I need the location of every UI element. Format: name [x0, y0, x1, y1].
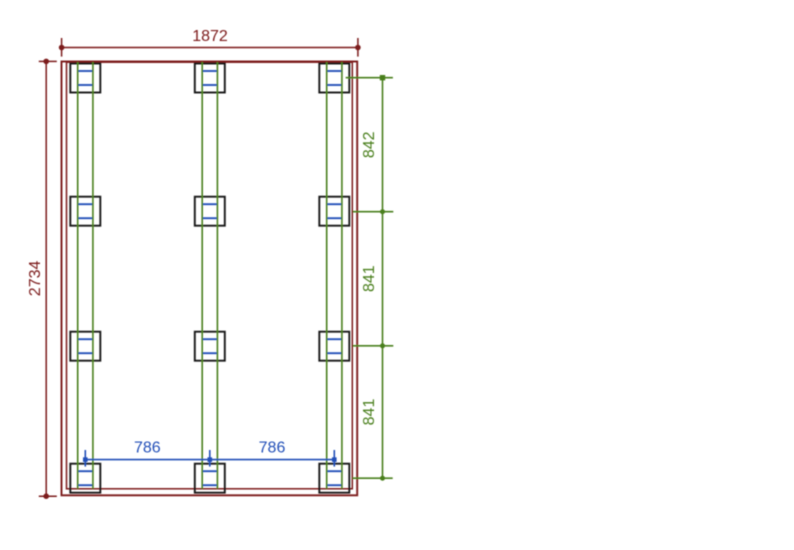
- dimension 2734 value label (rotated): [27, 261, 44, 297]
- dimension 841 value label lower (rotated): [361, 399, 378, 426]
- joist J1 left line: [77, 62, 79, 489]
- fastener lower line R4C2: [202, 484, 217, 486]
- fastener upper line R2C2: [202, 203, 217, 205]
- connector box R4C2: [195, 464, 225, 493]
- fastener upper line R1C2: [202, 70, 217, 72]
- fastener upper line R3C3: [327, 338, 342, 340]
- right dim marker row1 (square): [380, 75, 385, 80]
- fastener upper line R1C3: [327, 70, 342, 72]
- dimension 2734 top end dot: [43, 59, 49, 65]
- right dim marker row2 (dot): [380, 209, 385, 214]
- dimension 786 bottom (line): [85, 459, 334, 461]
- dimension 1872 top (line): [62, 47, 358, 49]
- dimension 842 value label (rotated): [361, 131, 378, 158]
- connector box R4C1: [70, 464, 100, 493]
- connector box R1C3: [319, 64, 349, 93]
- joist J3 right line: [341, 62, 343, 489]
- fastener upper line R3C2: [202, 338, 217, 340]
- fastener lower line R4C1: [78, 484, 93, 486]
- connector box R1C2: [195, 64, 225, 93]
- fastener upper line R4C3: [327, 470, 342, 472]
- fastener lower line R2C2: [202, 217, 217, 219]
- connector box R2C2: [195, 197, 225, 226]
- right dim marker row3 (dot): [380, 343, 385, 348]
- fastener lower line R1C3: [327, 84, 342, 86]
- joist J1 right line: [92, 62, 94, 489]
- dimension 786 value label left: [134, 440, 161, 457]
- svg-text:2734: 2734: [27, 261, 44, 297]
- dimension 2734 bottom end dot: [43, 493, 49, 499]
- fastener lower line R3C2: [202, 352, 217, 354]
- dimension 1872 right end dot: [355, 45, 361, 51]
- fastener upper line R1C1: [78, 70, 93, 72]
- dimension 2734 top extension line: [39, 60, 57, 62]
- svg-text:786: 786: [259, 440, 286, 457]
- dimension 1872 left end dot: [59, 45, 65, 51]
- connector box R3C2: [195, 332, 225, 361]
- right dim extension row3: [353, 345, 393, 347]
- dimension 2734 left (line): [45, 61, 47, 496]
- fastener upper line R4C1: [78, 470, 93, 472]
- dimension 2734 bottom extension line: [39, 495, 57, 497]
- connector box R2C1: [70, 197, 100, 226]
- dimension chain right (vertical line): [382, 78, 384, 479]
- connector box R3C1: [70, 332, 100, 361]
- joist J2 left line: [201, 62, 203, 489]
- fastener lower line R1C1: [78, 84, 93, 86]
- fastener upper line R2C1: [78, 203, 93, 205]
- fastener lower line R3C3: [327, 352, 342, 354]
- bottom dim tick post1: [84, 450, 86, 467]
- dimension 1872 right extension line: [357, 38, 359, 57]
- svg-text:841: 841: [361, 265, 378, 292]
- connector box R3C3: [319, 332, 349, 361]
- right dim extension row1: [346, 77, 393, 79]
- svg-text:841: 841: [361, 399, 378, 426]
- inner frame rectangle: [67, 62, 353, 489]
- joist J3 left line: [326, 62, 328, 489]
- svg-text:786: 786: [134, 440, 161, 457]
- svg-text:1872: 1872: [192, 28, 228, 45]
- fastener lower line R2C3: [327, 217, 342, 219]
- bottom dim square marker post1: [83, 457, 88, 462]
- fastener lower line R2C1: [78, 217, 93, 219]
- connector box R1C1: [70, 64, 100, 93]
- bottom dim tick post2: [209, 450, 211, 467]
- bottom dim square marker post2: [208, 457, 213, 462]
- dimension 1872 left extension line: [61, 38, 63, 57]
- dimension 841 value label upper (rotated): [361, 265, 378, 292]
- fastener upper line R4C2: [202, 470, 217, 472]
- fastener upper line R3C1: [78, 338, 93, 340]
- dimension 786 value label right: [259, 440, 286, 457]
- right dim extension row4: [353, 477, 393, 479]
- bottom dim tick post3: [333, 450, 335, 467]
- connector box R2C3: [319, 197, 349, 226]
- fastener lower line R3C1: [78, 352, 93, 354]
- bottom dim square marker post3: [332, 457, 337, 462]
- fastener upper line R2C3: [327, 203, 342, 205]
- fastener lower line R4C3: [327, 484, 342, 486]
- right dim extension row2: [353, 211, 393, 213]
- right dim marker row4 (dot): [380, 476, 385, 481]
- connector box R4C3: [319, 464, 349, 493]
- dimension 1872 value label: [192, 28, 228, 45]
- outer frame rectangle: [62, 62, 358, 496]
- svg-text:842: 842: [361, 131, 378, 158]
- fastener lower line R1C2: [202, 84, 217, 86]
- joist J2 right line: [216, 62, 218, 489]
